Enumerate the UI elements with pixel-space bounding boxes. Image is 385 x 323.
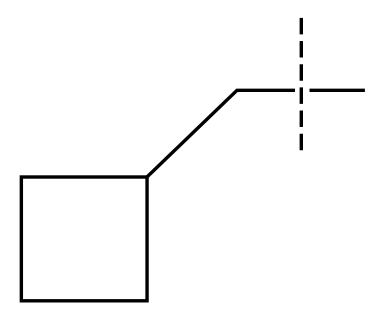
- bond: central atom to right terminus: [310, 89, 365, 92]
- cyclobutane ring: [21, 177, 147, 301]
- dashed bond: vertical through central atom: [300, 18, 303, 150]
- bond: ring carbon to CH2 vertex and on to central atom (left of dashed crossing): [147, 90, 295, 177]
